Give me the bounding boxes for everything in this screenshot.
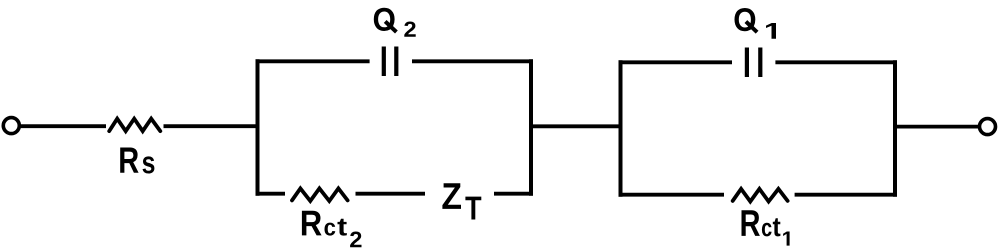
wire bbox=[256, 59, 370, 63]
label Q2 bbox=[374, 8, 416, 37]
wire bbox=[356, 192, 426, 196]
wire bbox=[619, 60, 733, 64]
wire: link between blocks bbox=[531, 124, 621, 128]
wire bbox=[775, 60, 897, 64]
wire bbox=[412, 59, 533, 63]
wire bbox=[619, 193, 725, 197]
wire: block1 left vertical bbox=[256, 59, 260, 195]
wire bbox=[164, 124, 260, 128]
label R_ct1 bbox=[742, 210, 790, 245]
label R_ct2 bbox=[302, 211, 362, 247]
wire bbox=[494, 192, 533, 196]
wire: block1 right vertical bbox=[529, 59, 533, 195]
resistor R_ct1 bbox=[733, 189, 788, 202]
capacitor Q2 bbox=[382, 47, 399, 77]
label R_s bbox=[120, 148, 154, 174]
wire bbox=[256, 192, 286, 196]
wire bbox=[897, 125, 979, 129]
capacitor Q1 bbox=[745, 48, 763, 78]
left terminal bbox=[3, 118, 19, 134]
right terminal bbox=[980, 119, 996, 135]
resistor R_s bbox=[109, 119, 160, 131]
wire: block2 right vertical bbox=[893, 60, 897, 196]
wire bbox=[795, 193, 897, 197]
wire bbox=[20, 124, 106, 128]
wire: block2 left vertical bbox=[619, 60, 623, 196]
label Z_T bbox=[442, 183, 481, 219]
label Q1 bbox=[735, 8, 777, 39]
resistor R_ct2 bbox=[292, 188, 348, 201]
